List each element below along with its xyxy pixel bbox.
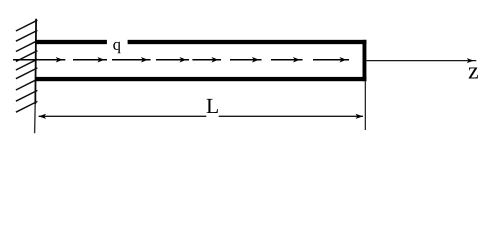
distributed load arrow 5 [192,57,221,63]
beam top line right segment [128,40,367,44]
beam right end cap [363,40,367,81]
dimension line left segment [39,115,207,117]
wall hatch line 2 [16,30,38,41]
distributed load arrow 7 [271,57,303,63]
beam bottom line [35,77,366,81]
dimension line right segment [219,115,363,117]
wall hatch line 9 [16,101,38,112]
wall hatch line 3 [16,41,38,52]
label z [469,67,478,78]
distributed load arrow 1 [13,57,65,63]
label L [207,99,218,113]
distributed load arrow 8 [313,57,349,63]
distributed load arrow 6 [230,57,262,63]
distributed load arrow 4 [156,57,189,63]
wall vertical line [34,19,37,104]
dimension arrowhead left [39,114,47,119]
distributed load arrow 3 [112,57,151,63]
wall hatch line 1 [16,20,38,31]
wall hatch line 6 [16,68,38,79]
wall hatch line 5 [16,59,38,70]
dimension extension line left [34,104,37,133]
dimension extension line right [365,81,366,130]
distributed load arrow 2 [73,57,107,63]
z axis arrowhead [467,58,474,63]
z axis line [366,60,476,62]
wall hatch line 4 [16,51,38,62]
label q [113,42,120,53]
wall hatch line 7 [16,79,38,90]
beam top line left segment [35,40,107,44]
dimension arrowhead right [356,114,364,119]
wall hatch line 8 [16,90,38,101]
